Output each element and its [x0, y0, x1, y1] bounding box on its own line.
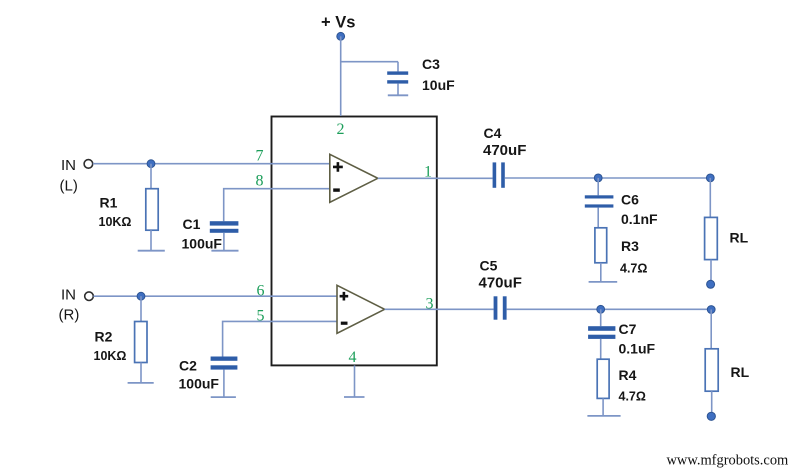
svg-text:C7: C7: [619, 321, 637, 337]
ground bar below R4: [587, 415, 620, 417]
svg-text:+ Vs: + Vs: [321, 14, 355, 32]
wire node D to RL2: [710, 310, 712, 349]
capacitor C4 plates: [493, 162, 505, 187]
input terminal R: [85, 292, 94, 301]
capacitor C6 plates: [585, 195, 614, 207]
node A junction dot: [594, 174, 602, 182]
ground bar below C1: [211, 250, 238, 252]
wire junction to R2: [140, 296, 142, 321]
op-amp U1A: [330, 154, 378, 202]
wire node A to C6: [597, 178, 599, 195]
svg-text:C2: C2: [179, 357, 197, 373]
terminal dot RL1: [707, 280, 715, 288]
svg-text:(R): (R): [59, 307, 80, 324]
resistor RL2: [705, 349, 718, 391]
svg-text:10KΩ: 10KΩ: [94, 349, 127, 363]
svg-text:470uF: 470uF: [479, 275, 522, 292]
wire Vs vertical to pin 2: [340, 36, 342, 116]
svg-text:IN: IN: [61, 286, 76, 303]
capacitor C5 plates: [494, 296, 507, 319]
resistor R4: [597, 359, 609, 398]
capacitor C3 top stem: [397, 62, 399, 72]
svg-text:10KΩ: 10KΩ: [99, 215, 132, 229]
svg-text:(L): (L): [60, 178, 78, 195]
wire R2 to ground: [140, 363, 142, 383]
wire pin 1 to C4: [378, 177, 493, 179]
resistor R3: [595, 228, 607, 263]
ground bar below C3: [388, 94, 408, 96]
wire pin 8 to C1: [224, 189, 331, 222]
svg-text:0.1uF: 0.1uF: [619, 340, 656, 356]
wire RL1 bottom: [710, 260, 712, 281]
resistor R2: [135, 322, 147, 363]
capacitor C7 plates: [588, 326, 615, 339]
svg-text:R4: R4: [619, 367, 637, 383]
IC box U1: [272, 117, 437, 366]
wire R3 to ground: [600, 263, 602, 282]
svg-text:RL: RL: [730, 230, 749, 246]
capacitor C2 plates: [211, 357, 238, 370]
wire pin 4 to ground: [354, 365, 356, 396]
svg-text:RL: RL: [731, 364, 750, 380]
svg-text:0.1nF: 0.1nF: [621, 211, 658, 227]
wire IN R to op-amp pin 6: [93, 295, 337, 297]
capacitor C2 bottom stem: [223, 370, 225, 398]
wire node B to RL1: [709, 178, 711, 218]
wire pin 5 to C2: [223, 321, 338, 356]
svg-text:IN: IN: [61, 157, 76, 174]
ground bar below R3: [589, 281, 618, 283]
svg-text:10uF: 10uF: [422, 77, 455, 93]
node B junction dot: [706, 174, 714, 182]
op-amp U1B: [337, 285, 385, 333]
node L input junction: [147, 160, 155, 168]
svg-text:R1: R1: [100, 195, 118, 211]
wire R1 to ground: [150, 230, 152, 251]
wire C6 to R3: [597, 208, 599, 228]
wire R4 to ground: [602, 398, 604, 416]
capacitor C3 bottom stem: [397, 84, 399, 95]
ground bar below R1: [138, 250, 165, 252]
svg-text:C4: C4: [484, 125, 502, 141]
resistor R1: [146, 189, 158, 231]
capacitor C1 bottom stem: [223, 233, 225, 251]
svg-text:R3: R3: [621, 238, 639, 254]
wire RL2 bottom: [711, 391, 713, 413]
svg-text:R2: R2: [95, 328, 113, 344]
node C junction dot: [597, 305, 605, 313]
ground bar pin 4: [344, 396, 365, 398]
svg-text:2: 2: [337, 121, 345, 138]
svg-text:7: 7: [256, 148, 264, 165]
wire Vs branch to C3: [341, 61, 398, 63]
svg-text:C3: C3: [422, 56, 440, 72]
label IN (R): [59, 286, 80, 323]
wire C4 to node A: [505, 177, 711, 179]
ground bar below R2: [128, 382, 154, 384]
wire node C to C7: [600, 309, 602, 326]
svg-text:100uF: 100uF: [182, 236, 223, 252]
svg-text:8: 8: [256, 173, 264, 190]
wire junction to R1: [150, 164, 152, 189]
wire C5 to node C: [507, 308, 712, 310]
node R input junction: [137, 292, 145, 300]
ground bar below C2: [211, 396, 236, 398]
capacitor C3 plates: [387, 71, 408, 83]
terminal dot RL2: [707, 412, 715, 420]
svg-text:C6: C6: [621, 191, 639, 207]
wire IN L to op-amp pin 7: [93, 163, 330, 165]
node +Vs junction dot: [337, 32, 345, 40]
svg-text:4.7Ω: 4.7Ω: [620, 261, 647, 275]
svg-text:470uF: 470uF: [483, 142, 526, 159]
resistor RL1: [705, 217, 718, 259]
wire C7 to R4: [600, 339, 602, 359]
node D junction dot: [707, 306, 715, 314]
wire pin 3 to C5: [385, 308, 494, 310]
svg-text:100uF: 100uF: [179, 376, 220, 392]
svg-text:www.mfgrobots.com: www.mfgrobots.com: [667, 453, 789, 469]
svg-text:C5: C5: [480, 258, 498, 274]
svg-text:C1: C1: [183, 216, 201, 232]
label IN (L): [60, 157, 78, 195]
svg-text:4.7Ω: 4.7Ω: [619, 390, 646, 404]
input terminal L: [84, 160, 93, 169]
capacitor C1 plates: [210, 221, 239, 233]
svg-text:4: 4: [349, 349, 357, 366]
